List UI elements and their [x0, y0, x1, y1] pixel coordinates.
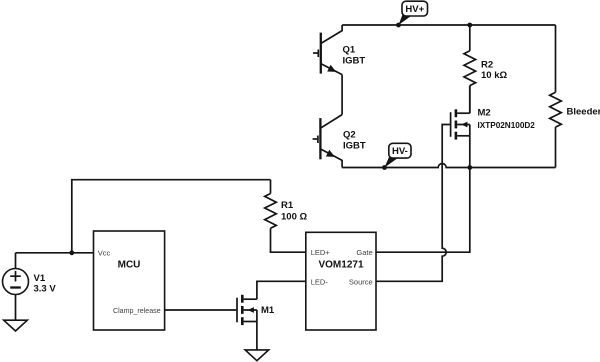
svg-text:IXTP02N100D2: IXTP02N100D2	[478, 121, 536, 130]
svg-text:M2: M2	[478, 107, 491, 118]
resistor R2	[464, 25, 476, 113]
svg-text:Vcc: Vcc	[98, 249, 111, 258]
svg-text:HV-: HV-	[392, 146, 408, 157]
ground (below M1)	[245, 350, 269, 361]
wire HV- rail with hop over M2 gate wire	[342, 164, 555, 168]
svg-text:Q1: Q1	[343, 44, 356, 55]
resistor R1	[265, 180, 306, 253]
wire right side down to bleeder	[555, 25, 557, 168]
svg-text:IGBT: IGBT	[343, 56, 366, 67]
junction node HV- rail / M2 source	[467, 165, 472, 170]
opto driver VOM1271	[306, 232, 376, 330]
ground (below V1)	[4, 320, 28, 331]
net flag HV-	[382, 143, 411, 170]
transistor M1 (N-MOSFET)	[237, 295, 257, 325]
svg-text:LED-: LED-	[311, 277, 329, 286]
resistor Bleeder	[550, 92, 562, 127]
svg-text:Source: Source	[349, 277, 373, 286]
voltage source V1	[3, 253, 29, 320]
svg-text:M1: M1	[261, 305, 275, 316]
svg-text:IGBT: IGBT	[343, 141, 366, 152]
transistor Q2 (IGBT)	[313, 115, 343, 168]
MCU box	[94, 231, 165, 330]
junction node Vcc wire	[69, 250, 74, 255]
svg-text:VOM1271: VOM1271	[318, 260, 363, 271]
wire MCU Clamp_release to M1 gate	[165, 309, 237, 311]
transistor Q1 (IGBT)	[313, 25, 342, 75]
label M2 IXTP02N100D2	[478, 107, 536, 130]
wire M1 source down to ground	[256, 322, 258, 350]
svg-text:HV+: HV+	[405, 4, 424, 15]
wire VOM1271 Source pin to M2 gate (hops right over gate wire)	[376, 125, 450, 282]
svg-text:Bleeder: Bleeder	[567, 107, 600, 118]
wire V1/Vcc node up and across to R1	[72, 180, 271, 253]
label R2 10 kOhm	[481, 59, 507, 81]
wire M2 drain up to R2	[469, 86, 471, 114]
svg-text:LED+: LED+	[311, 248, 331, 257]
svg-text:3.3 V: 3.3 V	[34, 283, 57, 294]
svg-text:10 kΩ: 10 kΩ	[481, 70, 507, 81]
label R1 100 Ohm	[281, 200, 307, 223]
svg-text:Gate: Gate	[356, 248, 372, 257]
svg-text:R1: R1	[281, 200, 294, 211]
label V1 3.3 V	[34, 273, 57, 295]
wire V1 to MCU Vcc	[16, 252, 94, 254]
svg-text:V1: V1	[34, 273, 46, 284]
net flag HV+	[396, 1, 427, 27]
junction node HV+ rail / R2	[467, 23, 472, 28]
label Q1 IGBT	[343, 44, 366, 66]
wire M2 source down to HV- rail	[469, 136, 471, 168]
svg-text:MCU: MCU	[118, 260, 141, 271]
wire Q1 emitter to Q2 collector	[341, 75, 343, 115]
svg-text:Clamp_release: Clamp_release	[113, 307, 161, 315]
svg-text:R2: R2	[481, 59, 493, 70]
svg-text:100 Ω: 100 Ω	[281, 211, 307, 222]
label Q2 IGBT	[343, 129, 366, 151]
transistor M2 (N-MOSFET)	[451, 109, 470, 139]
wire VOM1271 Gate pin to HV- rail	[376, 168, 470, 253]
svg-text:Q2: Q2	[343, 129, 356, 140]
wire HV+ top rail	[342, 24, 555, 26]
wire M1 drain to VOM1271 LED-	[257, 281, 306, 299]
